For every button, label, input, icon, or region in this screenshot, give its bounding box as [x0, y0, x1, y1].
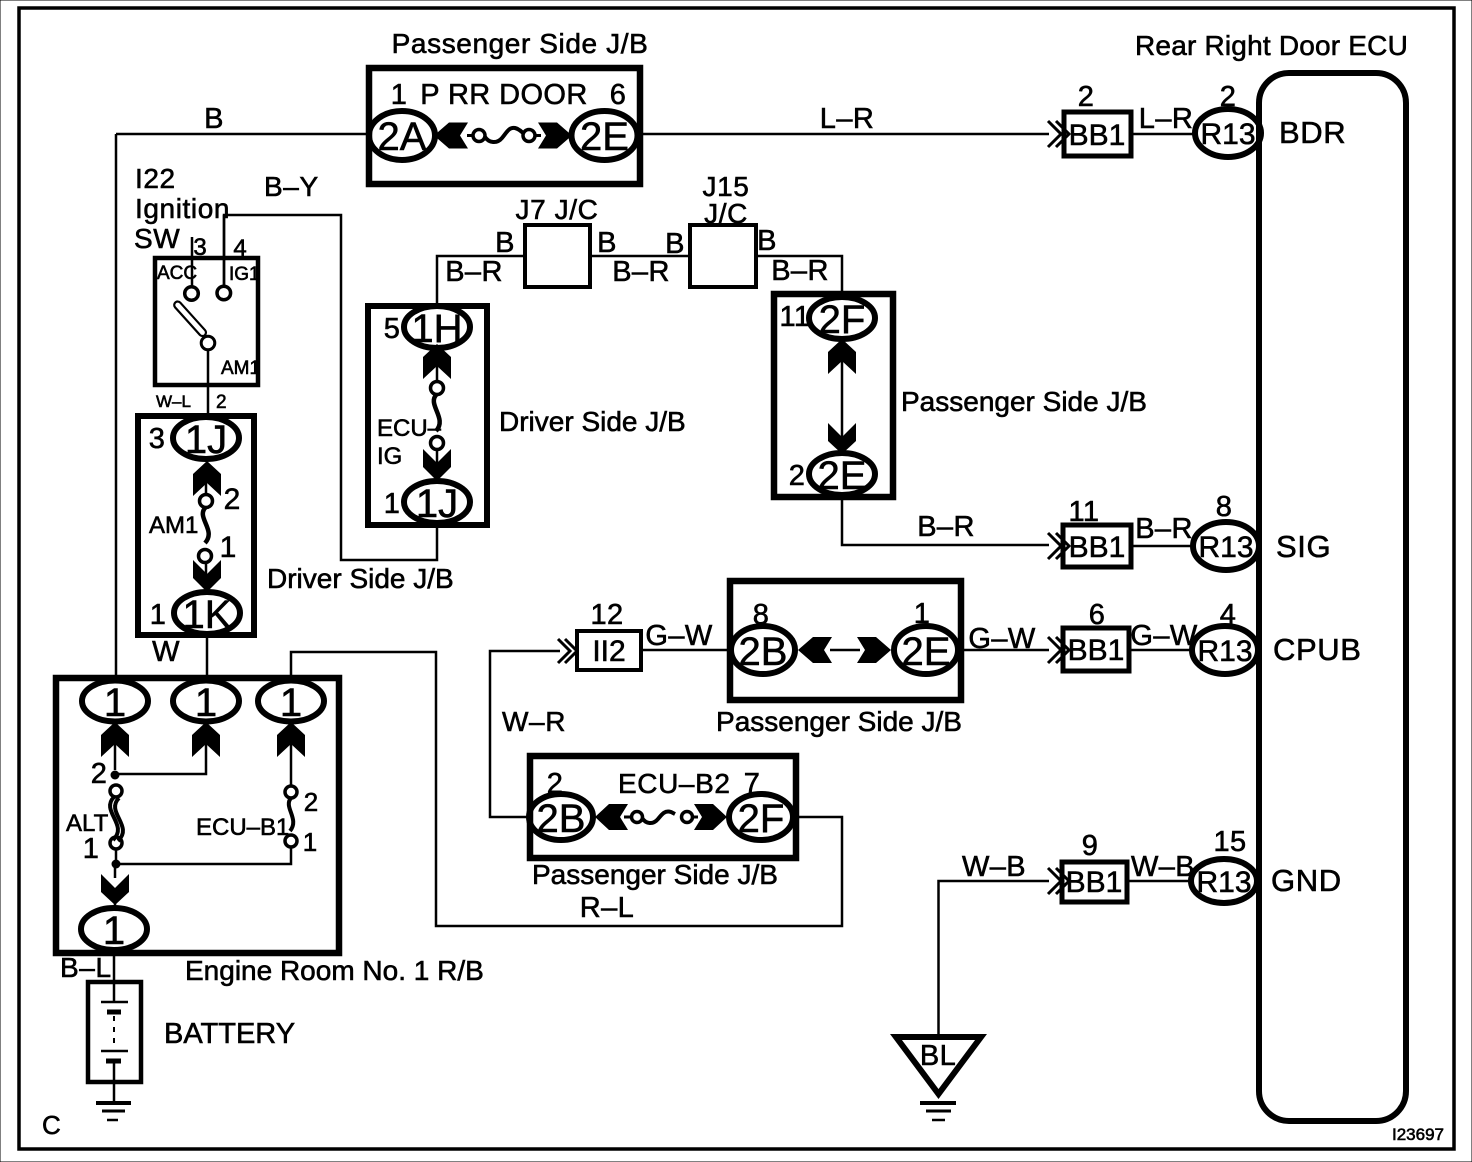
fuse P RR DOOR element — [467, 134, 473, 137]
connector 1J pin 3 — [173, 417, 239, 459]
svg-text:Passenger Side J/B: Passenger Side J/B — [901, 386, 1147, 417]
BL noise filter triangle — [896, 1037, 981, 1094]
svg-text:11: 11 — [1069, 496, 1100, 528]
svg-text:B–R: B–R — [445, 256, 503, 288]
wire L-R from 2E to BB1 — [638, 133, 1050, 136]
svg-text:Passenger Side J/B: Passenger Side J/B — [716, 706, 962, 737]
wire J7 to J15 — [590, 255, 690, 258]
connector 1K pin 1 — [174, 592, 240, 634]
node junction dot — [112, 860, 121, 869]
svg-text:B: B — [204, 103, 224, 135]
svg-text:1: 1 — [391, 79, 408, 111]
svg-text:2F: 2F — [819, 298, 866, 342]
wire B vertical down to Engine Room R/B — [115, 134, 118, 681]
connector 2A — [369, 111, 435, 160]
svg-text:Ignition: Ignition — [135, 193, 230, 224]
svg-text:W–B: W–B — [962, 851, 1026, 883]
svg-text:BDR: BDR — [1279, 115, 1346, 150]
svg-text:J/C: J/C — [704, 198, 748, 229]
svg-text:SW: SW — [134, 223, 180, 254]
svg-text:2B: 2B — [739, 630, 788, 674]
svg-text:2F: 2F — [738, 797, 785, 841]
svg-text:BB1: BB1 — [1069, 531, 1126, 564]
svg-text:1J: 1J — [416, 482, 458, 526]
svg-text:G–W: G–W — [968, 623, 1035, 655]
svg-text:8: 8 — [1216, 491, 1233, 523]
svg-text:L–R: L–R — [1139, 103, 1193, 135]
svg-text:1J: 1J — [185, 418, 227, 462]
svg-text:R13: R13 — [1200, 118, 1255, 151]
svg-text:J7 J/C: J7 J/C — [516, 194, 599, 225]
svg-text:SIG: SIG — [1276, 529, 1331, 564]
wire B-R from 1H up to J7 — [437, 256, 525, 306]
svg-text:7: 7 — [744, 768, 761, 800]
svg-text:IG: IG — [377, 443, 402, 470]
svg-text:G–W: G–W — [1130, 620, 1197, 652]
Driver Side J/B box (AM1 fuse) — [138, 416, 254, 635]
Passenger Side J/B box (2B-2E horizontal) — [730, 581, 961, 700]
connector 2F pin 7 — [729, 794, 793, 840]
arrow toward 2B — [798, 637, 832, 663]
arrow down to 2E — [828, 423, 856, 454]
svg-text:1: 1 — [384, 488, 401, 520]
svg-text:5: 5 — [384, 313, 401, 345]
svg-text:R13: R13 — [1198, 531, 1253, 564]
wire G-W BB1 to R13 — [1129, 649, 1192, 652]
wire J15 to 2F — [756, 256, 842, 298]
svg-text:W: W — [152, 636, 180, 668]
wire ALT branch — [114, 744, 117, 770]
svg-text:4: 4 — [1220, 599, 1237, 631]
splice chevrons into BB1 (BDR) — [1048, 121, 1061, 147]
connector 1 (left) — [82, 681, 148, 722]
junction connector J7 J/C — [525, 225, 590, 287]
fuse ALT — [110, 785, 122, 797]
svg-text:Passenger Side J/B: Passenger Side J/B — [392, 28, 649, 59]
svg-text:9: 9 — [1082, 830, 1099, 862]
svg-text:2B: 2B — [537, 797, 586, 841]
svg-text:I23697: I23697 — [1392, 1125, 1444, 1144]
Driver Side J/B box (ECU-IG fuse) — [368, 306, 487, 525]
arrow down to 1J — [423, 449, 451, 481]
svg-text:15: 15 — [1213, 826, 1246, 858]
switch lever — [173, 300, 208, 337]
arrow up (middle) — [192, 722, 220, 757]
svg-text:2A: 2A — [378, 115, 427, 159]
arrow down to battery feed — [101, 874, 129, 905]
wire W-B from BL to BB1 (GND) — [939, 881, 1050, 1037]
svg-text:Passenger Side J/B: Passenger Side J/B — [532, 859, 778, 890]
fuse P RR DOOR left arrow — [434, 123, 468, 149]
svg-text:ECU–B2: ECU–B2 — [618, 768, 731, 799]
connector 1 (middle) — [173, 681, 239, 722]
svg-text:AM1: AM1 — [221, 358, 260, 379]
wire W from 1K — [206, 634, 209, 681]
wire B-R BB1 to R13 — [1131, 545, 1193, 548]
svg-text:BB1: BB1 — [1068, 634, 1125, 667]
svg-text:2: 2 — [304, 787, 318, 817]
connector BB1 pin 9 — [1062, 862, 1127, 902]
connector 1J pin 1 — [404, 481, 470, 523]
svg-text:2E: 2E — [818, 454, 867, 498]
Engine Room No. 1 R/B box — [56, 678, 339, 953]
connector 1 (right) — [258, 681, 324, 722]
terminal 4 / IG1 wire — [223, 215, 226, 286]
svg-text:AM1: AM1 — [149, 512, 198, 539]
svg-text:2E: 2E — [902, 630, 951, 674]
arrow up to 1H — [423, 344, 451, 379]
svg-text:P RR DOOR: P RR DOOR — [420, 79, 587, 111]
svg-text:2: 2 — [91, 758, 108, 790]
battery — [88, 982, 141, 1082]
svg-text:B–R: B–R — [771, 255, 829, 287]
svg-text:1: 1 — [83, 833, 100, 865]
svg-text:B: B — [597, 227, 617, 259]
splice chevrons into II2 — [558, 639, 570, 663]
svg-text:ECU–: ECU– — [377, 415, 442, 442]
connector 2B pin 2 — [529, 794, 593, 840]
svg-text:1: 1 — [150, 599, 167, 631]
connector R13 pin 4 (CPUB) — [1192, 626, 1258, 674]
svg-text:2: 2 — [789, 460, 806, 492]
wire to middle arrow — [115, 744, 206, 774]
arrow up (left) — [101, 722, 129, 757]
wire G-W II2 to 2B — [641, 649, 731, 652]
link wire — [841, 361, 844, 437]
fuse P RR DOOR right arrow — [538, 123, 572, 149]
svg-text:W–B: W–B — [1131, 851, 1195, 883]
fuse ECU-B2 left arrow — [595, 804, 628, 830]
splice chevrons into BB1 (CPUB) — [1048, 637, 1061, 663]
svg-text:4: 4 — [233, 235, 246, 262]
splice chevrons into BB1 (SIG) — [1048, 533, 1061, 559]
svg-text:G–W: G–W — [645, 620, 712, 652]
wire W-B BB1 to R13 — [1127, 880, 1192, 883]
wire G-W 2E to BB1 (CPUB) — [958, 649, 1049, 652]
svg-text:2: 2 — [547, 768, 564, 800]
wire ECU-B1 to junction — [116, 847, 291, 864]
arrow up to 2F — [828, 339, 856, 374]
svg-text:BATTERY: BATTERY — [164, 1018, 295, 1050]
svg-text:Driver Side J/B: Driver Side J/B — [267, 563, 454, 594]
svg-text:6: 6 — [1089, 599, 1106, 631]
arrow down to 1K — [193, 560, 221, 592]
splice chevrons into BB1 (GND) — [1048, 868, 1061, 894]
svg-text:1: 1 — [280, 681, 302, 725]
connector BB1 pin 6 — [1063, 628, 1129, 671]
connector 2E pin 2 — [809, 453, 875, 495]
svg-text:ECU–B1: ECU–B1 — [196, 814, 289, 841]
wire W-R from 2B up to II2 — [490, 651, 560, 817]
svg-text:BB1: BB1 — [1066, 866, 1123, 899]
svg-text:2: 2 — [1078, 81, 1095, 113]
svg-text:12: 12 — [590, 599, 623, 631]
svg-text:1: 1 — [303, 827, 317, 857]
svg-text:2E: 2E — [580, 115, 629, 159]
svg-text:3: 3 — [193, 234, 206, 261]
node junction dot — [111, 771, 120, 780]
svg-text:BL: BL — [920, 1040, 956, 1072]
svg-text:L–R: L–R — [820, 103, 874, 135]
svg-text:I22: I22 — [135, 163, 176, 194]
connector 2B pin 8 — [731, 626, 795, 674]
switch pivot AM1 — [201, 336, 215, 350]
svg-text:1: 1 — [914, 598, 931, 630]
wire B horizontal to 2A — [116, 133, 369, 136]
connector 2F pin 11 — [809, 297, 875, 339]
svg-text:8: 8 — [753, 599, 770, 631]
svg-text:C: C — [42, 1110, 61, 1140]
svg-text:Driver Side J/B: Driver Side J/B — [499, 406, 686, 437]
svg-text:2: 2 — [216, 392, 227, 413]
connector 1H pin 5 — [404, 306, 470, 348]
ground below BL — [920, 1101, 956, 1105]
Rear Right Door ECU outline — [1259, 73, 1406, 1121]
arrow up to 1J — [193, 461, 221, 496]
svg-text:B: B — [495, 227, 515, 259]
svg-text:R–L: R–L — [580, 892, 634, 924]
connector R13 pin 15 (GND) — [1191, 859, 1257, 903]
svg-text:6: 6 — [610, 79, 627, 111]
link wire — [830, 649, 860, 652]
wire AM1 to 1J — [207, 350, 210, 418]
connector BB1 pin 11 — [1063, 525, 1131, 567]
fuse ECU-B2 element — [624, 816, 632, 819]
Passenger Side J/B box (2F-2E vertical) — [774, 294, 893, 497]
svg-text:R13: R13 — [1196, 866, 1251, 899]
svg-text:Engine Room No. 1 R/B: Engine Room No. 1 R/B — [185, 955, 484, 986]
svg-text:W–R: W–R — [502, 706, 566, 737]
arrow up (right) — [277, 722, 305, 757]
svg-text:B–R: B–R — [1135, 513, 1193, 545]
svg-text:CPUB: CPUB — [1273, 632, 1362, 667]
fuse AM1 — [205, 483, 208, 495]
svg-text:B–L: B–L — [60, 952, 112, 983]
connector II2 pin 12 — [577, 631, 641, 670]
connector 2E — [572, 111, 638, 160]
svg-text:GND: GND — [1271, 863, 1342, 898]
connector 1 (bottom) — [81, 908, 147, 950]
terminal ACC contact — [185, 287, 199, 301]
connector 2E pin 1 — [894, 626, 958, 674]
connector BB1 pin 2 — [1064, 112, 1131, 156]
svg-text:3: 3 — [149, 423, 166, 455]
svg-text:1: 1 — [104, 681, 126, 725]
Passenger Side J/B box (ECU-B2) — [530, 756, 796, 858]
svg-text:B: B — [757, 225, 777, 257]
svg-text:IG1: IG1 — [229, 264, 260, 285]
svg-text:II2: II2 — [592, 635, 625, 668]
wire B-R from 2E to BB1 (SIG) — [842, 495, 1049, 545]
fuse ECU-B1 — [290, 744, 293, 786]
svg-text:Rear Right Door ECU: Rear Right Door ECU — [1135, 30, 1408, 61]
connector R13 pin 2 (BDR) — [1195, 109, 1261, 157]
wire R-L from 2F to Engine Room R/B — [291, 652, 842, 926]
svg-text:W–L: W–L — [156, 392, 191, 411]
svg-text:B–R: B–R — [612, 256, 670, 288]
arrow toward 2E — [857, 637, 891, 663]
svg-text:11: 11 — [780, 301, 811, 333]
junction connector J15 J/C — [690, 225, 756, 287]
wire B-L to battery — [113, 950, 116, 982]
svg-text:1: 1 — [195, 681, 217, 725]
svg-text:R13: R13 — [1197, 635, 1252, 668]
svg-text:B–Y: B–Y — [264, 171, 319, 202]
svg-text:BB1: BB1 — [1069, 119, 1126, 152]
ground below battery — [96, 1101, 131, 1105]
svg-text:ACC: ACC — [157, 263, 197, 284]
terminal 3 stub — [191, 237, 194, 287]
wire B-Y from IG1 to Driver Side J/B 1J — [224, 215, 437, 560]
wire L-R BB1 to R13 — [1131, 133, 1196, 136]
connector R13 pin 8 (SIG) — [1193, 522, 1259, 570]
terminal IG1 contact — [217, 286, 231, 300]
fuse ECU-IG — [436, 366, 439, 382]
svg-text:2: 2 — [224, 483, 241, 516]
fuse ECU-B2 right arrow — [694, 804, 727, 830]
svg-text:1: 1 — [103, 909, 125, 953]
svg-text:2: 2 — [1220, 81, 1237, 113]
svg-text:1K: 1K — [183, 593, 232, 637]
ignition switch box — [155, 258, 258, 385]
junction block P RR DOOR box — [369, 68, 640, 184]
svg-text:B–R: B–R — [917, 511, 975, 543]
svg-text:1: 1 — [220, 531, 237, 564]
